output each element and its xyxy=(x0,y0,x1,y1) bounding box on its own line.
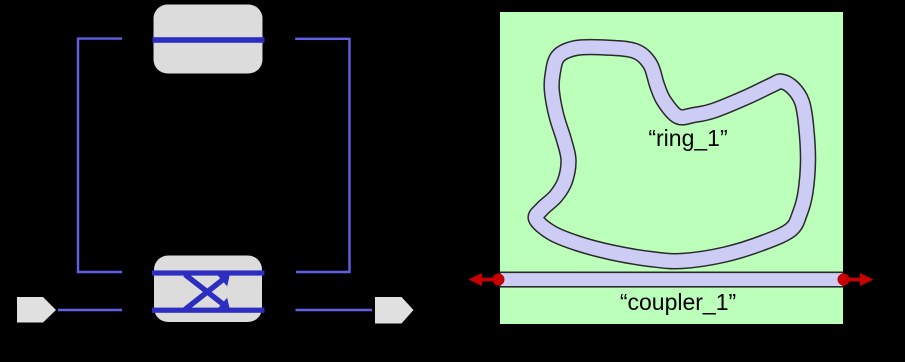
port marker dot right xyxy=(838,274,850,286)
port marker dot left xyxy=(493,274,505,286)
wire bottom left xyxy=(58,309,122,312)
coupler cross diagonal up xyxy=(185,280,223,310)
wire bottom right xyxy=(296,309,373,312)
coupler cross diagonal down xyxy=(185,275,226,307)
coupler bottom waveguide line xyxy=(152,308,265,313)
ring_1 waveguide blob outline xyxy=(536,47,808,261)
port pentagon left xyxy=(17,297,56,323)
svg-text:“coupler_1”: “coupler_1” xyxy=(620,289,736,315)
coupler_1 waveguide bar xyxy=(500,272,843,287)
ring box waveguide line xyxy=(153,37,265,43)
coupler arrowhead down-right xyxy=(218,298,231,313)
wire right loop xyxy=(295,39,349,272)
coupler arrowhead up-right xyxy=(218,272,231,287)
ring_1 waveguide blob fill band xyxy=(536,47,808,261)
coupler top waveguide line xyxy=(152,270,265,275)
wire left loop xyxy=(78,39,122,272)
directional coupler box (bottom, schematic) xyxy=(154,256,262,323)
port arrow right xyxy=(844,273,874,286)
svg-text:“ring_1”: “ring_1” xyxy=(648,125,727,151)
layout cell background (green) xyxy=(500,12,843,324)
ring component box (top, schematic) xyxy=(154,5,263,74)
port pentagon right xyxy=(375,297,414,324)
port arrow left xyxy=(469,273,499,286)
